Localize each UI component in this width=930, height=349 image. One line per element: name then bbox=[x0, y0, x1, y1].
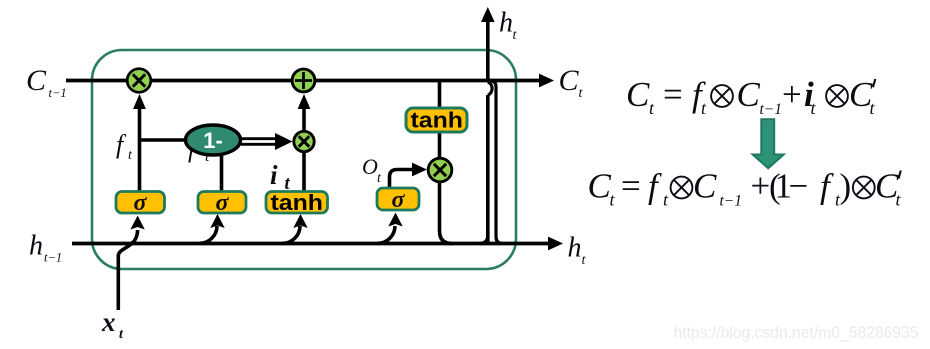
svg-text:h: h bbox=[29, 231, 43, 262]
sigma box 4 bbox=[377, 188, 419, 210]
svg-text:t: t bbox=[582, 253, 587, 268]
svg-text:t: t bbox=[663, 190, 669, 210]
svg-text:f: f bbox=[116, 130, 127, 159]
svg-text:+: + bbox=[782, 75, 802, 114]
svg-text:f: f bbox=[820, 167, 834, 206]
svg-text:σ: σ bbox=[392, 187, 406, 213]
svg-text:t: t bbox=[128, 148, 133, 163]
svg-text:O: O bbox=[362, 154, 378, 179]
svg-text:σ: σ bbox=[216, 190, 230, 216]
wire double line from ellipse to multiply2 bbox=[241, 137, 280, 140]
svg-text:t: t bbox=[610, 190, 616, 210]
wire sigma1 to multiply gate vertical bbox=[138, 106, 142, 192]
green arrow down bbox=[753, 119, 784, 168]
S-arrow h line into tanh3 bbox=[283, 226, 301, 243]
svg-text:C: C bbox=[26, 64, 47, 97]
tanh box 3 bbox=[266, 192, 328, 214]
svg-text:t: t bbox=[701, 98, 707, 118]
svg-text:t−1: t−1 bbox=[49, 86, 67, 100]
sigma box 2 bbox=[198, 192, 246, 214]
equation 2 bbox=[588, 167, 902, 210]
multiply gate 1 bbox=[127, 69, 151, 93]
wire h line (bottom output line) bbox=[72, 242, 549, 246]
svg-text:t: t bbox=[896, 190, 902, 210]
arrowhead into multiply out bbox=[412, 163, 427, 177]
svg-text:i: i bbox=[270, 160, 278, 190]
S-arrow h line into sigma4 bbox=[378, 226, 396, 243]
wire sigma2 up to ellipse bbox=[220, 150, 224, 192]
LSTM cell rounded border bbox=[92, 50, 516, 269]
multiply gate 2 bbox=[294, 131, 314, 151]
equation 1 bbox=[626, 75, 876, 118]
arrowhead into add gate bbox=[298, 94, 311, 109]
wire sigma4 elbow to multiply out bbox=[390, 170, 417, 189]
wire f_t branch to 1- ellipse bbox=[140, 138, 201, 142]
svg-text:=: = bbox=[663, 75, 683, 114]
multiply gate out bbox=[428, 158, 452, 182]
svg-text:C: C bbox=[588, 167, 612, 206]
svg-text:+: + bbox=[751, 167, 771, 206]
svg-text:1-: 1- bbox=[203, 128, 223, 153]
wire hop over C line bbox=[488, 82, 492, 95]
svg-text:t: t bbox=[811, 98, 817, 118]
svg-text:t: t bbox=[649, 98, 655, 118]
S-arrow h line into sigma2 bbox=[200, 226, 218, 243]
svg-text:t−1: t−1 bbox=[44, 251, 62, 265]
svg-text:): ) bbox=[840, 167, 852, 206]
wire C_t down branch bbox=[490, 81, 503, 244]
svg-text:x: x bbox=[101, 307, 116, 337]
svg-text:C: C bbox=[693, 167, 717, 206]
arrowhead into multiply2 bbox=[275, 133, 293, 150]
svg-text:t: t bbox=[377, 171, 382, 186]
svg-text:f: f bbox=[648, 167, 662, 206]
svg-text:h: h bbox=[499, 8, 513, 39]
svg-text:C: C bbox=[737, 75, 761, 114]
wire h_t top branch vertical bbox=[486, 95, 490, 244]
arrowhead h_t top bbox=[481, 7, 495, 22]
wire tanh3 box up to multiply2 bbox=[302, 150, 306, 192]
wire multiply out down to h line bbox=[440, 183, 453, 244]
arrowhead into multiply gate bbox=[133, 94, 146, 109]
svg-text:σ: σ bbox=[134, 190, 148, 216]
svg-text:=: = bbox=[621, 167, 641, 206]
arrowhead C_t output bbox=[539, 74, 554, 88]
arrowhead into sigma1 bbox=[130, 216, 144, 230]
svg-text:t: t bbox=[285, 174, 291, 194]
svg-text:https://blog.csdn.net/m0_58286: https://blog.csdn.net/m0_58286935 bbox=[674, 324, 919, 342]
wire C line to tanh box bbox=[438, 82, 442, 108]
svg-text:t−1: t−1 bbox=[760, 101, 783, 118]
add gate bbox=[292, 69, 315, 92]
sigma box 1 bbox=[116, 192, 165, 214]
svg-text:t−1: t−1 bbox=[720, 193, 743, 210]
wire C line (top memory line) bbox=[66, 79, 541, 83]
wire x_t input into sigma1 bbox=[118, 230, 137, 310]
svg-text:t: t bbox=[119, 327, 124, 342]
arrowhead h_t output bbox=[548, 237, 563, 251]
svg-text:−: − bbox=[789, 167, 809, 206]
svg-text:h: h bbox=[568, 233, 582, 264]
svg-text:C: C bbox=[626, 75, 650, 114]
svg-text:C: C bbox=[559, 64, 580, 97]
svg-text:t: t bbox=[870, 98, 876, 118]
svg-text:tanh: tanh bbox=[411, 108, 464, 133]
wire tanh box down to multiply out bbox=[438, 132, 442, 158]
svg-text:t: t bbox=[513, 28, 518, 43]
1- ellipse bbox=[186, 125, 241, 155]
tanh box upper bbox=[406, 108, 467, 132]
svg-text:tanh: tanh bbox=[271, 190, 324, 215]
svg-text:t: t bbox=[579, 86, 584, 101]
wire multiply2 up to add gate bbox=[302, 107, 306, 131]
